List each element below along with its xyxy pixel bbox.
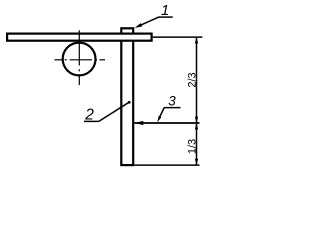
leader for label 1 — [159, 16, 173, 18]
svg-text:3: 3 — [168, 94, 176, 109]
leader for label 2 (ends with dot on rod) — [84, 120, 99, 122]
bar (horizontal beam, drawn over rod) — [7, 34, 152, 41]
dimension arrow down at middle — [195, 117, 198, 123]
horizontal centerline — [55, 59, 106, 61]
vertical centerline — [78, 30, 80, 85]
svg-text:1/3: 1/3 — [186, 139, 198, 154]
dimension arrow down at bottom — [195, 159, 198, 165]
middle extension line (impact height, arrow 3) — [134, 122, 199, 124]
arrowhead pointing left at rod — [134, 121, 143, 125]
dimension arrow up at top — [195, 37, 198, 43]
svg-text:2/3: 2/3 — [186, 72, 198, 87]
leader for label 3 (arrow onto extension line) — [164, 107, 180, 109]
dimension line — [196, 37, 198, 165]
rod item 2 (vertical flat bar with block on top) — [121, 28, 133, 165]
roller circle — [63, 43, 96, 76]
svg-text:2: 2 — [84, 106, 94, 123]
dimension arrow up at middle — [195, 123, 198, 129]
svg-text:1: 1 — [161, 2, 169, 19]
bottom extension line — [134, 164, 199, 166]
top extension line — [153, 36, 203, 38]
